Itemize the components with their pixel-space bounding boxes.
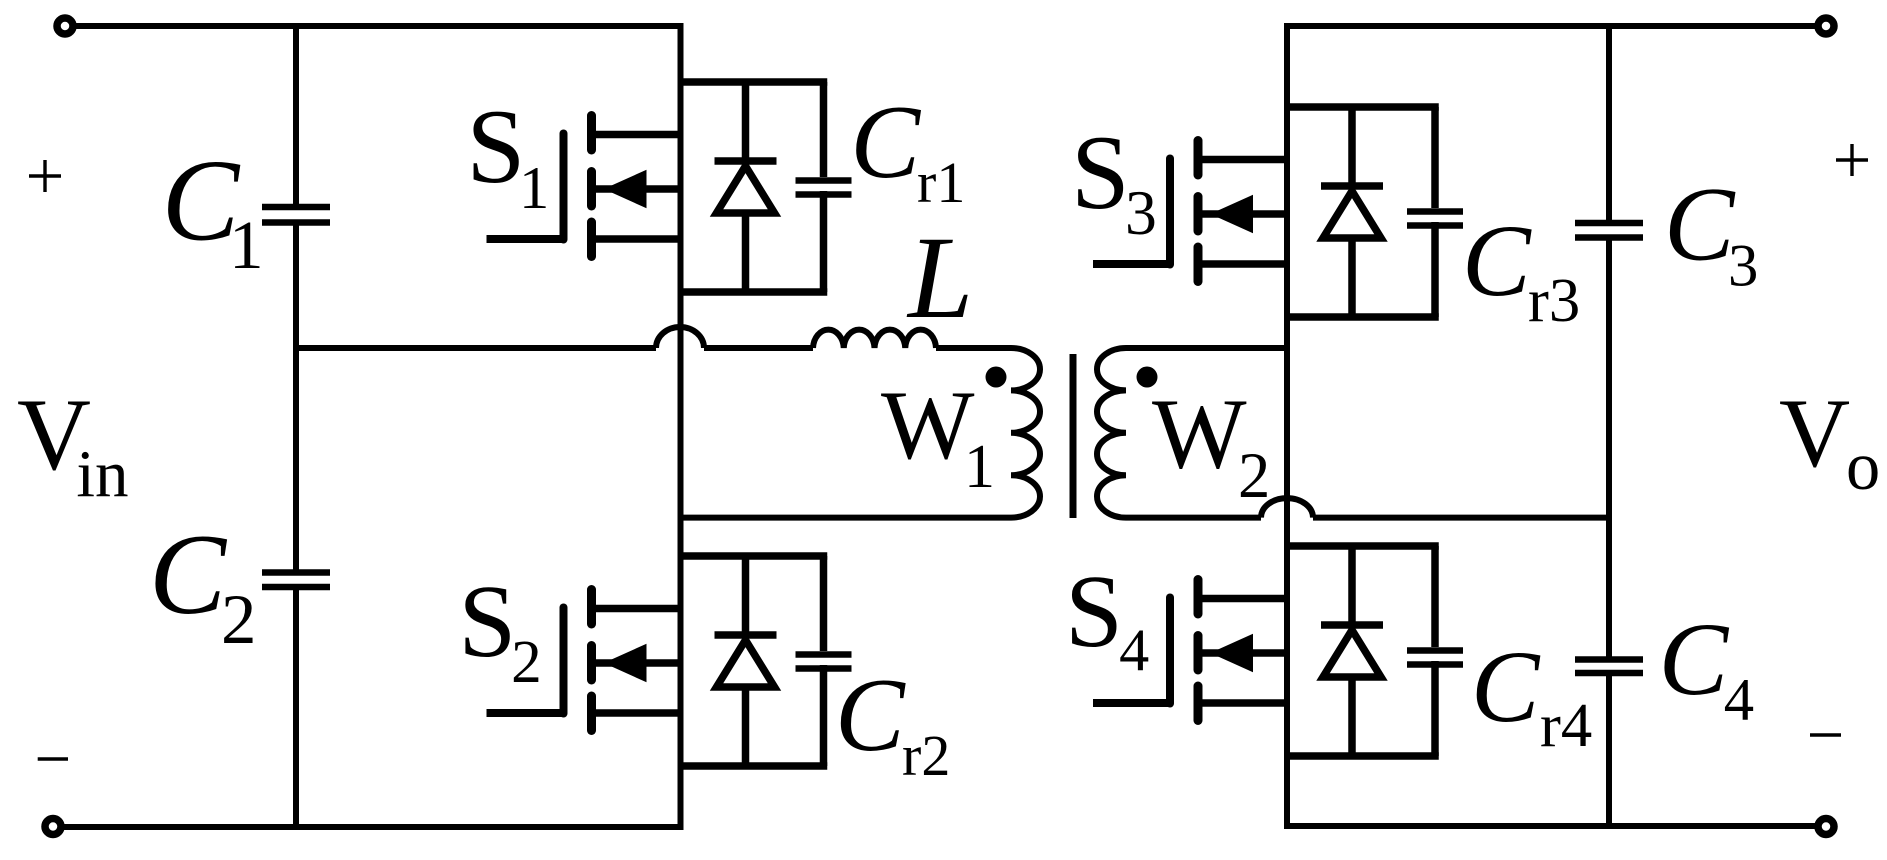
- wire top-left bus: [76, 23, 683, 29]
- wire C1-C2 column upper: [293, 23, 299, 205]
- wire hop over left rail: [656, 327, 704, 348]
- capacitor C4: [1575, 656, 1643, 663]
- capacitor Cr1: [820, 82, 828, 177]
- wire C3-C4 column lower: [1606, 675, 1612, 829]
- svg-text:C: C: [1462, 204, 1532, 318]
- svg-text:1: 1: [519, 155, 549, 222]
- svg-text:C: C: [835, 657, 906, 773]
- svg-text:V: V: [1779, 379, 1850, 488]
- MOSFET S2 transistor symbol: [596, 605, 681, 613]
- switch S1 cell box: [678, 78, 828, 86]
- svg-text:L: L: [906, 213, 973, 343]
- svg-text:C: C: [850, 84, 921, 200]
- svg-text:S: S: [1071, 114, 1130, 231]
- svg-text:2: 2: [511, 628, 542, 696]
- dot W2 polarity: [1137, 367, 1158, 388]
- svg-text:o: o: [1846, 428, 1880, 504]
- svg-text:2: 2: [1238, 439, 1270, 511]
- capacitor Cr3: [1431, 107, 1439, 208]
- input terminal top-left: [57, 18, 73, 34]
- svg-text:3: 3: [1125, 177, 1157, 248]
- wire top-right bus: [1287, 23, 1815, 29]
- svg-text:S: S: [458, 564, 516, 679]
- svg-text:3: 3: [1728, 232, 1758, 299]
- svg-text:C: C: [1471, 631, 1541, 744]
- wire C1-C2 column middle: [293, 225, 299, 571]
- wire hop over right rail: [1261, 498, 1313, 518]
- wire inductor to winding W1: [936, 345, 1011, 351]
- wire bottom-left bus: [64, 824, 683, 830]
- capacitor Cr2: [820, 556, 828, 651]
- svg-text:C: C: [1664, 166, 1736, 283]
- svg-text:1: 1: [229, 206, 264, 283]
- winding W2 secondary: [1097, 348, 1126, 518]
- diode D3: [1348, 107, 1356, 186]
- minus sign input: [38, 757, 68, 760]
- wire C3-C4 column middle: [1606, 240, 1612, 658]
- wire winding W1 bottom to left leg midpoint: [683, 515, 1011, 521]
- wire winding W2 top to right leg midpoint: [1126, 345, 1287, 351]
- wire bottom-right bus: [1287, 823, 1815, 829]
- svg-text:r4: r4: [1540, 690, 1592, 760]
- MOSFET S3 transistor symbol: [1202, 156, 1287, 164]
- svg-text:r2: r2: [902, 723, 950, 788]
- wire hop to C3-C4 midpoint: [1313, 515, 1609, 521]
- input terminal bottom-left: [45, 819, 61, 835]
- diode D4: [1348, 546, 1356, 625]
- wire left leg rail: [678, 23, 684, 830]
- transformer core: [1070, 354, 1077, 518]
- svg-text:r1: r1: [917, 150, 965, 215]
- svg-text:4: 4: [1119, 617, 1149, 684]
- dot W1 polarity: [986, 367, 1007, 388]
- svg-text:W: W: [881, 371, 975, 480]
- svg-text:S: S: [466, 88, 525, 205]
- minus sign output: [1810, 733, 1841, 736]
- wire hop to inductor: [704, 345, 813, 351]
- inductor L: [813, 330, 936, 348]
- wire right leg rail: [1284, 23, 1290, 829]
- winding W1 primary: [1011, 348, 1040, 518]
- plus sign output: [1836, 158, 1868, 161]
- capacitor C1: [262, 204, 330, 211]
- switch S4 cell box: [1284, 542, 1439, 550]
- svg-text:r3: r3: [1528, 265, 1580, 335]
- capacitor Cr4: [1431, 546, 1439, 647]
- svg-text:in: in: [76, 436, 128, 511]
- svg-text:W: W: [1152, 378, 1247, 489]
- capacitor C2: [262, 569, 330, 576]
- svg-text:1: 1: [964, 433, 995, 501]
- svg-text:C: C: [1659, 601, 1730, 717]
- wire C1-C2 midpoint to hop: [296, 345, 656, 351]
- wire winding W2 bottom to hop: [1126, 515, 1261, 521]
- MOSFET S4 transistor symbol: [1202, 595, 1287, 603]
- svg-text:C: C: [149, 510, 228, 638]
- plus sign input: [29, 174, 61, 177]
- svg-text:S: S: [1065, 553, 1123, 669]
- MOSFET S1 transistor symbol: [596, 131, 681, 139]
- switch S3 cell box: [1284, 103, 1439, 111]
- svg-text:2: 2: [221, 581, 256, 659]
- diode D2: [742, 556, 750, 635]
- switch S2 cell box: [678, 552, 828, 560]
- diode D1: [742, 82, 750, 161]
- wire C3-C4 column upper: [1606, 23, 1612, 221]
- wire C1-C2 column lower: [293, 589, 299, 830]
- capacitor C3: [1575, 220, 1643, 227]
- svg-text:4: 4: [1724, 667, 1754, 734]
- output terminal top-right: [1818, 18, 1834, 34]
- output terminal bottom-right: [1818, 819, 1834, 835]
